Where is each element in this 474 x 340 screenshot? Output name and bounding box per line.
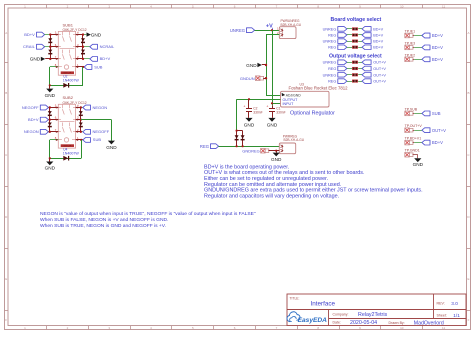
svg-text:OUT+V: OUT+V [373,61,386,65]
pin wire SUB2 right row 1 [76,107,81,109]
port SUB at SUB1 pin 1 [84,64,103,69]
svg-text:A: A [5,31,7,35]
diode on left rail upper gap SUB2 [48,111,52,115]
wire jumper to port (output row 2) [358,68,362,70]
port BD+V at TP.IE2 [422,57,443,62]
pin wire SUB1 left row 3 [50,58,58,60]
svg-text:GND: GND [106,145,117,150]
svg-text:Interface: Interface [311,300,336,307]
jumper resistor (output row 4) [352,80,357,83]
port BD+V at TP.IE3 [422,45,443,50]
svg-text:UNREG: UNREG [323,40,337,44]
wire to jumper (output row 4) [347,81,352,83]
wire GNDUN to GND rail [263,78,266,80]
svg-text:NEGON is "value of output when: NEGON is "value of output when input is … [40,211,256,217]
junction dots left rail SUB2 [49,106,51,133]
port OUT+V (output row 2) [362,66,386,71]
wire to jumper (board row 3) [347,41,352,43]
ground symbol below SUB2 [45,162,56,171]
SUB1 reference designator [63,22,74,27]
svg-text:Board voltage select: Board voltage select [331,17,382,23]
junction dot GNDUN [265,77,267,79]
wire PWRREG pin 2 to ground [276,151,278,153]
wire TP.IE3 to port [413,47,422,49]
svg-text:B2B-XH-A-GU: B2B-XH-A-GU [284,138,305,142]
svg-text:CRAIL: CRAIL [23,44,36,49]
svg-text:Optional Regulator: Optional Regulator [290,111,335,117]
svg-text:BD+V: BD+V [432,140,443,145]
capacitor C2 [243,99,252,118]
wire jumper to port (output row 1) [358,62,362,64]
wire CRAIL to rail [45,46,51,48]
svg-text:BD+V: BD+V [28,117,39,122]
SUB1 pin numbers [55,31,79,67]
port REG (board row 4) [328,45,347,50]
test point TP.SUB [405,107,418,115]
value 1N4007W [63,79,80,83]
port UNREG (board row 1) [323,27,347,32]
coil pin 8 wire SUB2 [50,139,59,141]
svg-text:F: F [5,318,7,322]
diode on right rail lower gap SUB2 [79,123,83,127]
ground below PWRREG [271,153,282,162]
EasyEDA logo [287,312,327,324]
pin wire SUB2 right row 3 [76,131,81,133]
svg-text:2020-05-04: 2020-05-04 [350,320,377,326]
port BD+V to SUB1 pin 5 [24,32,44,37]
pin wire SUB1 right row 1 [76,34,83,36]
wire REG to PWRREG pin 1 [219,146,280,148]
SUB2 reference designator [63,95,74,100]
wire rail to port NEGOFF [81,131,83,133]
wire jumper to port (board row 4) [358,47,362,49]
port UNREG (power input) [230,28,255,33]
wire to jumper (output row 2) [347,68,352,70]
svg-text:BD+V: BD+V [432,33,443,38]
wire jumper to port (board row 1) [358,28,362,30]
jumper resistor (board row 4) [352,46,357,49]
svg-text:REG: REG [328,80,336,84]
wire +V rail down to INPUT and C1 [272,30,281,105]
PWRUNREG pin numbers [277,26,279,35]
svg-text:INPUT: INPUT [283,102,295,106]
wire to jumper (board row 4) [347,47,352,49]
svg-text:1N4007W: 1N4007W [63,79,80,83]
svg-text:+: + [266,105,268,109]
junction dot output/C2 [248,98,250,100]
wire to ground SUB1 [49,85,51,88]
ground below TP.GND1 [413,158,424,167]
svg-text:NEGOFF: NEGOFF [22,105,39,110]
svg-text:G6K-2F-Y DC12: G6K-2F-Y DC12 [63,101,87,105]
C2 labels [253,106,262,114]
title block Drawn By field [389,320,444,326]
regulator U3 box [281,91,330,107]
title block Company field [333,312,388,318]
left rail wire of SUB1 [50,35,52,59]
junction dot bridge top [236,130,238,132]
pin wire SUB1 right row 2 [76,46,83,48]
svg-text:BD+V: BD+V [373,40,383,44]
svg-text:+: + [243,105,245,109]
port OUT+V (output row 3) [362,73,386,78]
svg-text:NEGOFF: NEGOFF [93,129,110,134]
svg-text:Drawn By:: Drawn By: [389,321,405,325]
junction dots right rail SUB2 [80,106,82,133]
coil pin 8 wire SUB1 [50,66,59,68]
designator U4 [63,148,67,152]
wire rail to port NEGON [81,107,83,109]
U3 pin 1 ADJ/GND [282,93,302,98]
svg-text:OUT+V: OUT+V [373,67,386,71]
svg-text:GND: GND [244,123,255,128]
diode on bridge right [241,135,245,139]
pin wire SUB2 left row 2 [50,119,59,121]
svg-text:330nF: 330nF [276,111,285,115]
wire to jumper (output row 3) [347,74,352,76]
relay body bar of SUB1 [61,71,74,74]
wire jumper to port (output row 4) [358,81,362,83]
svg-text:BD+V: BD+V [432,45,443,50]
svg-text:SUB: SUB [432,111,441,116]
pin wire SUB1 right row 3 [76,58,83,60]
wire NEGON to rail [48,131,49,133]
ground flag on GND rail [246,63,266,68]
title block REV field [437,301,459,306]
svg-text:SUB2: SUB2 [63,95,74,100]
pin wire SUB2 left row 1 [50,107,59,109]
pin wire SUB2 left row 3 [50,131,59,133]
wire jumper to port (output row 3) [358,74,362,76]
svg-text:BD+V: BD+V [373,46,383,50]
pin wire SUB2 right row 2 [76,119,81,121]
svg-text:When SUB is TRUE, NEGON is GND: When SUB is TRUE, NEGON is GND and NEGOF… [40,223,166,229]
right rail wire of SUB1 [82,35,84,59]
svg-text:B: B [5,91,7,95]
pin wire SUB1 left row 2 [50,46,58,48]
test point TP.IE3 [405,41,416,49]
svg-text:OUT+V: OUT+V [373,73,386,77]
wire NEGOFF to rail [48,107,49,109]
coil pin 1 wire SUB1 to SUB [76,66,85,68]
svg-text:MadOverlord: MadOverlord [414,320,444,326]
jumper resistor (output row 1) [352,61,357,64]
svg-text:REG: REG [328,34,336,38]
svg-text:3.0: 3.0 [451,301,458,306]
svg-text:GNDREG: GNDREG [242,148,260,153]
text Optional Regulator [290,111,335,117]
svg-text:OUT+V: OUT+V [432,128,446,133]
svg-text:GND: GND [45,166,56,171]
wire BD+V to rail [45,34,51,36]
wire rail to port BD+V [83,58,90,60]
svg-text:BD+V: BD+V [432,57,443,62]
svg-text:EasyEDA: EasyEDA [298,317,328,324]
jumper resistor (board row 1) [352,28,357,31]
junction dots right rail SUB1 [82,33,84,60]
svg-text:UNREG: UNREG [323,73,337,77]
jumper resistor (board row 3) [352,40,357,43]
svg-text:SUB1: SUB1 [63,22,74,27]
svg-text:11: 11 [442,5,445,9]
junction dot coil net SUB2 [80,139,82,141]
svg-text:+V: +V [266,23,273,29]
svg-text:OUT+V: OUT+V [373,80,386,84]
svg-text:UNREG: UNREG [230,28,245,33]
wire to jumper (board row 2) [347,34,352,36]
value 1N4007W [63,152,80,156]
svg-text:REV:: REV: [437,302,445,306]
test point TP.OUT+V [405,124,423,132]
port NEGON to SUB2 pin 7 [24,129,48,134]
svg-text:UNREG: UNREG [323,27,337,31]
port BD+V at TP.IE1 [422,33,443,38]
port REG (output row 2) [328,66,347,71]
heading Board voltage select [331,17,382,23]
port CRAIL to SUB1 pin 6 [23,44,45,49]
wire jumper to port (board row 3) [358,41,362,43]
svg-text:B: B [467,91,469,95]
svg-text:SUB: SUB [94,64,103,69]
test point TP.GND1 [405,149,420,157]
wire TP.IE2 to port [413,59,422,61]
svg-text:UNREG: UNREG [323,61,337,65]
svg-text:E: E [467,277,469,281]
title block frame [287,294,466,326]
port OUT+V (output row 1) [362,60,386,65]
port BD+V (board row 1) [362,27,384,32]
svg-text:REG: REG [328,67,336,71]
svg-text:GND: GND [246,63,257,68]
svg-text:BD+V: BD+V [373,27,383,31]
port SUB at SUB2 pin 1 [83,137,102,142]
port REG (board row 2) [328,33,347,38]
port BD+V at SUB1 pin 2 [90,56,111,61]
svg-text:TITLE:: TITLE: [290,296,300,300]
ground below C2 [244,118,255,128]
svg-text:Output voltage select: Output voltage select [329,53,382,59]
svg-text:GND: GND [30,57,41,62]
flyback loop wire SUB1 [50,67,84,86]
jumper resistor (output row 3) [352,74,357,77]
title block Sheet field [437,313,461,318]
power flag +V [266,23,273,30]
connector PWRUNREG (B2B-XH-A-GU) [279,27,296,39]
svg-text:Foshan Blue Rocket Elec 7812: Foshan Blue Rocket Elec 7812 [289,86,349,91]
wire TP.IE1 to port [413,35,422,37]
port BD+V (board row 4) [362,45,384,50]
port NEGON at SUB2 pin 4 [83,105,107,110]
wire PWRUNREG pin 2 to GND rail down to U3 ADJ/GND [266,35,281,96]
wire TP.BD+V1 to port [413,142,422,144]
port REG (output row 4) [328,79,347,84]
svg-text:E: E [5,277,7,281]
port SUB at TP.SUB [422,111,441,116]
port NEGOFF at SUB2 pin 2 [83,129,110,134]
junction dot flyback/ground SUB2 [49,157,51,159]
right rail wire of SUB2 [80,108,82,132]
wire jumper to port (board row 2) [358,34,362,36]
port UNREG (output row 1) [323,60,347,65]
diode on right rail upper gap SUB2 [79,111,83,115]
svg-text:G6K-2F-Y DC12: G6K-2F-Y DC12 [63,28,87,32]
port UNREG (output row 3) [323,73,347,78]
port UNREG (board row 3) [323,39,347,44]
svg-text:Relay2Tetris: Relay2Tetris [358,312,387,318]
U3 pin 2 OUTPUT [283,98,299,102]
regulator U3 labels [289,83,349,91]
junction dot coil net SUB1 [82,66,84,68]
svg-text:11: 11 [442,326,445,330]
wire to jumper (board row 1) [347,28,352,30]
svg-text:1N4007W: 1N4007W [63,152,80,156]
connector PWRREG (B2B-XH-A-GU) [279,143,295,154]
U3 pin 3 INPUT [283,102,295,106]
relay SUB1 (G6K-2F-Y DC12) [58,31,75,75]
port OUT+V (output row 4) [362,79,386,84]
svg-text:REG: REG [328,46,336,50]
wire TP.GND1 to ground [413,155,418,159]
wire TP.OUT+V to port [413,130,422,132]
diode on right rail lower gap SUB1 [81,50,85,54]
wire to ground SUB2 [49,158,51,161]
bridge rail above REG wire [237,131,243,147]
pad GNDUN [240,76,264,81]
svg-text:10: 10 [400,5,404,9]
svg-text:When SUB is FALSE, NEGON is +V: When SUB is FALSE, NEGON is +V and NEGOF… [40,217,168,223]
wire TP.SUB to port [413,113,422,115]
wire to jumper (output row 1) [347,62,352,64]
svg-text:BD+V: BD+V [24,32,35,37]
junction node +V [271,29,273,31]
svg-text:A: A [467,31,469,35]
relay body bar of SUB2 [61,144,74,147]
designator U2 [63,75,67,79]
connector PWRUNREG labels [281,19,302,27]
diode on right rail upper gap SUB1 [81,38,85,42]
title block TITLE field [290,296,336,307]
svg-text:GNDUN: GNDUN [240,76,255,81]
flyback diode U2 (1N4007W) [63,83,68,88]
SUB2 pin numbers [55,104,79,140]
jumper resistor (board row 2) [352,34,357,37]
capacitor C1 [266,105,275,118]
wire SUB2 pin 2 to ground [81,120,112,141]
left rail wire of SUB2 [49,108,51,132]
svg-text:NEGON: NEGON [24,129,39,134]
junction dots left rail SUB1 [49,33,51,60]
svg-text:BD+V: BD+V [373,34,383,38]
diode on bridge left [235,135,239,139]
port NEGOFF to SUB2 pin 5 [22,105,48,110]
svg-text:1/1: 1/1 [453,313,460,318]
port OUT+V at TP.OUT+V [422,128,446,133]
port BD+V (board row 2) [362,33,384,38]
svg-text:Company:: Company: [333,312,349,316]
svg-text:Sheet:: Sheet: [437,314,447,318]
port BD+V at TP.BD+V1 [422,140,443,145]
junction dots on REG wire [236,145,244,147]
ground flag right of SUB1 pin 4 [83,32,102,37]
wire BD+V to rail [48,119,49,121]
diode on left rail upper gap SUB1 [48,38,52,42]
svg-text:330nF: 330nF [253,111,262,115]
ground below C1 [267,118,278,128]
port REG [200,144,219,149]
svg-text:GND: GND [271,157,282,162]
flyback loop wire SUB2 [50,140,82,159]
svg-text:NCRAIL: NCRAIL [100,44,115,49]
SUB2 value G6K-2F-Y DC12 [63,101,87,105]
diode on left rail lower gap SUB1 [48,50,52,54]
wire GNDREG to PWRREG pin 2 [268,150,279,152]
connector PWRREG labels [283,134,305,142]
wire OUTPUT net [237,99,281,130]
svg-text:10: 10 [400,326,404,330]
coil pin 1 wire SUB2 to SUB [76,139,83,141]
junction dot GND rail / flag [265,64,267,66]
port NCRAIL at SUB1 pin 3 [90,44,115,49]
relay SUB2 (G6K-2F-Y DC12) [58,104,75,148]
svg-text:SUB: SUB [93,137,102,142]
title block Date field [333,320,378,326]
svg-text:B2B-XH-A-GU: B2B-XH-A-GU [281,23,302,27]
junction dot INPUT node [271,102,273,104]
svg-text:GND: GND [45,93,56,98]
note text block about power nets [204,164,423,199]
port BD+V (board row 3) [362,39,384,44]
ground flag left of SUB1 pin 7 [30,57,51,62]
flyback diode U4 (1N4007W) [63,156,68,161]
heading Output voltage select [329,53,382,59]
svg-text:GND: GND [413,162,424,167]
pad GNDREG [242,148,269,153]
junction dot PWRREG pin 2 [275,150,277,152]
svg-text:REG: REG [200,144,209,149]
pin wire SUB1 left row 1 [50,34,58,36]
junction dot flyback/ground SUB1 [49,84,51,86]
port BD+V to SUB2 pin 6 [28,117,48,122]
note text block about NEGON/NEGOFF [40,211,256,229]
SUB1 value G6K-2F-Y DC12 [63,28,87,32]
ground symbol right of SUB2 [106,141,117,150]
test point TP.IE1 [405,30,416,38]
svg-text:BD+V: BD+V [100,56,111,61]
svg-text:F: F [468,318,470,322]
C1 labels [276,106,285,114]
test point TP.BD+V1 [405,137,422,145]
svg-text:GND: GND [267,123,278,128]
svg-text:NEGON: NEGON [93,105,108,110]
diode on left rail lower gap SUB2 [48,123,52,127]
ground symbol below SUB1 [45,89,56,98]
svg-text:Date:: Date: [333,321,341,325]
svg-text:Regulator and capacitors will: Regulator and capacitors will vary depen… [204,193,339,199]
wire UNREG to PWRUNREG pin 1 [255,30,280,32]
jumper resistor (output row 2) [352,67,357,70]
svg-text:GND: GND [91,32,102,37]
test point TP.IE2 [405,53,416,61]
wire rail to port NCRAIL [83,46,90,48]
